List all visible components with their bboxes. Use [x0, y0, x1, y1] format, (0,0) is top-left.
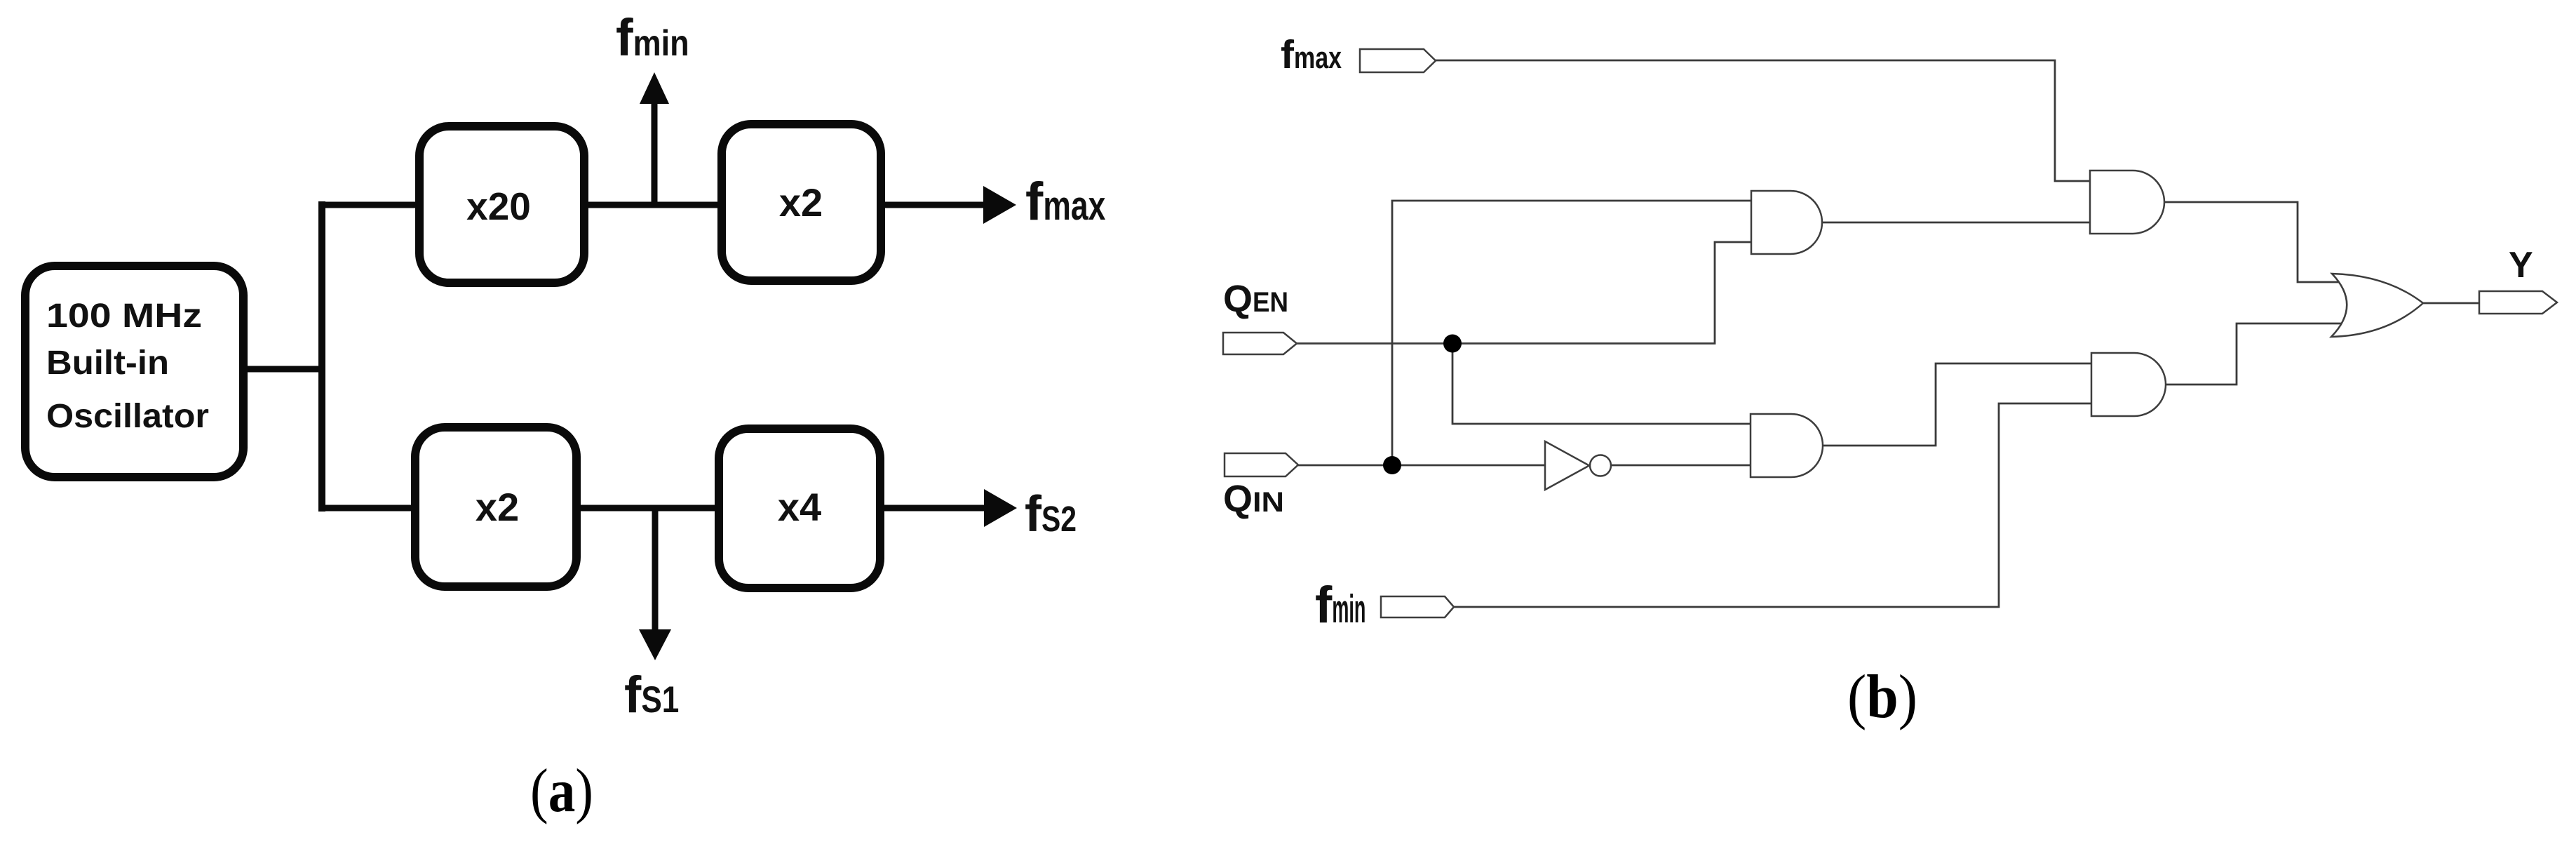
input pin fmin	[1381, 596, 1454, 617]
multiplier x4	[719, 429, 880, 588]
oscillator block	[25, 266, 243, 477]
wire fmax to AND2 top input	[1436, 60, 2090, 181]
wire AND2 out to OR top input	[2164, 202, 2342, 282]
svg-text:Built-in: Built-in	[46, 345, 169, 382]
wire AND3 out to AND4 top input	[1823, 363, 2091, 446]
AND gate U2 (QIN &amp; QEN)	[1751, 191, 1822, 254]
multiplier x2 bottom	[415, 427, 576, 587]
wire QIN to inverter	[1298, 465, 1545, 467]
oscillator label	[46, 298, 209, 435]
wire QEN to AND1 bottom input	[1297, 242, 1751, 344]
fS1 output arrow	[652, 508, 659, 631]
wire trunk to lower x2	[318, 505, 415, 512]
svg-text:x2: x2	[779, 180, 823, 225]
svg-text:(a): (a)	[530, 757, 593, 825]
wire OR out to Y pin	[2423, 302, 2479, 305]
fS2 output arrow	[880, 505, 988, 512]
multiplier x2 top	[722, 124, 881, 281]
junction dot on QIN wire	[1383, 456, 1401, 474]
svg-text:Oscillator: Oscillator	[46, 398, 209, 435]
wire trunk vertical	[318, 201, 325, 512]
output pin Y	[2479, 291, 2557, 314]
OR gate U6	[2331, 274, 2423, 337]
wire inverter to AND3 bottom input	[1611, 465, 1751, 467]
wire x20 to x2	[584, 202, 722, 208]
svg-text:(b): (b)	[1847, 663, 1917, 731]
wire lower x2 to x4	[576, 505, 719, 512]
inverter U1	[1545, 441, 1611, 490]
wire QIN branch to AND1 top input	[1392, 201, 1751, 465]
junction dot on QEN wire	[1443, 335, 1462, 353]
AND gate U3 (fmax stage)	[2090, 171, 2164, 234]
svg-text:Y: Y	[2509, 245, 2533, 286]
wire AND4 out to OR bottom input	[2166, 323, 2342, 385]
fmin output arrow	[652, 98, 658, 205]
svg-text:100 MHz: 100 MHz	[46, 298, 202, 335]
wire QEN branch to AND3 top input	[1452, 344, 1751, 425]
wire AND1 out to AND2 bottom input	[1822, 222, 2090, 224]
input pin QEN	[1223, 333, 1297, 354]
AND gate U5 (fmin stage)	[2091, 353, 2166, 416]
fmax output arrow	[881, 202, 987, 208]
AND gate U4 (QEN &amp; notQIN)	[1751, 414, 1823, 477]
wire trunk to x20	[318, 202, 419, 208]
wire oscillator to trunk	[243, 366, 325, 373]
svg-text:x4: x4	[778, 485, 821, 529]
svg-text:x2: x2	[476, 485, 519, 529]
svg-text:x20: x20	[466, 185, 531, 228]
multiplier x20	[419, 126, 584, 283]
wire fmin to AND4 bottom input	[1454, 403, 2091, 607]
input pin fmax	[1360, 49, 1436, 72]
input pin QIN	[1225, 453, 1298, 476]
